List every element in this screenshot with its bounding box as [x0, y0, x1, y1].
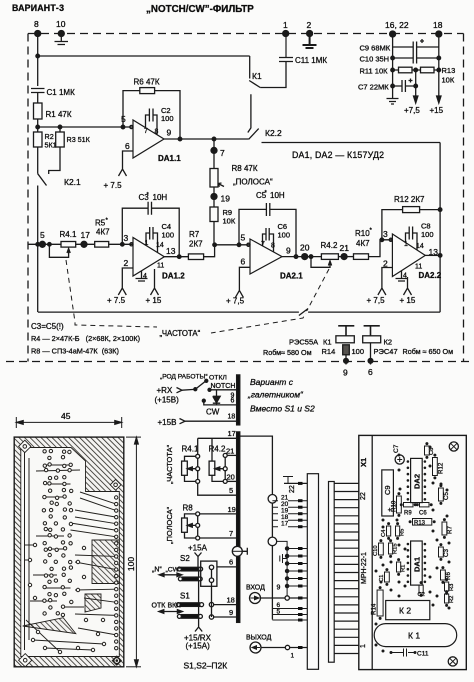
resistor R15 [389, 543, 393, 554]
svg-text:„NOTCH/CW”-ФИЛЬТР: „NOTCH/CW”-ФИЛЬТР [146, 4, 254, 15]
diode VD [213, 390, 220, 405]
svg-text:100: 100 [421, 230, 434, 239]
node wiper tap [48, 243, 52, 247]
output wire [282, 256, 321, 258]
mounting hole top [449, 442, 458, 451]
svg-text:+ 7.5: + 7.5 [107, 296, 126, 305]
feedback tap [121, 243, 125, 247]
svg-text:С6: С6 [419, 511, 427, 517]
svg-text:3: 3 [383, 229, 388, 239]
svg-text:14: 14 [156, 242, 164, 249]
svg-text:6: 6 [231, 397, 235, 404]
svg-text:R1 47К: R1 47К [46, 110, 72, 119]
svg-text:„ЧАСТОТА“: „ЧАСТОТА“ [165, 444, 174, 484]
+15 wire [404, 277, 412, 295]
svg-text:ВАРИАНТ-3: ВАРИАНТ-3 [12, 3, 64, 13]
svg-text:R8 47К: R8 47К [232, 164, 258, 173]
svg-text:„ЧАСТОТА“: „ЧАСТОТА“ [160, 329, 201, 338]
svg-text:DA1.1: DA1.1 [158, 154, 181, 163]
svg-text:20: 20 [227, 473, 235, 482]
solder pads [375, 446, 451, 653]
resistor R13 [421, 67, 435, 73]
svg-text:17: 17 [81, 230, 91, 240]
mounting pad BR [112, 656, 121, 665]
svg-text:С7 22МК: С7 22МК [358, 83, 389, 92]
etched white area [21, 448, 120, 657]
svg-text:МРН-22-1: МРН-22-1 [361, 552, 368, 584]
svg-text:R10: R10 [355, 229, 370, 238]
relay K1 coil [336, 336, 354, 343]
resistor R11 [393, 69, 439, 71]
svg-text:ВКЛ: ВКЛ [168, 603, 182, 610]
capacitor C5 [439, 488, 444, 501]
wire R1 to node [37, 119, 39, 132]
socket circle B [268, 537, 277, 546]
svg-text:С2: С2 [418, 592, 425, 598]
svg-text:„ПОЛОСА“: „ПОЛОСА“ [233, 178, 273, 187]
S1 to +15/RX [195, 618, 202, 631]
resistor R2 [445, 594, 449, 603]
svg-text:R9: R9 [404, 511, 412, 517]
op-amp DA2.2 [392, 234, 425, 277]
svg-text:7: 7 [220, 148, 225, 158]
S2 contact box [201, 561, 217, 586]
IC DA2 [411, 458, 423, 502]
mode switch lever [177, 388, 183, 393]
svg-text:+15В: +15В [158, 418, 177, 427]
potentiometer R8 [210, 169, 218, 188]
pin 16,22 dot [390, 31, 396, 37]
svg-text:R11 10К: R11 10К [360, 67, 389, 76]
PCB copper layout board [14, 437, 124, 667]
connector body МРН [307, 474, 318, 670]
svg-text:R3 51К: R3 51К [67, 135, 91, 144]
svg-text:9: 9 [167, 128, 172, 138]
svg-text:3: 3 [124, 233, 129, 243]
R4.1 wiper [49, 244, 70, 257]
bypass wire right [439, 143, 441, 313]
resistor R10 [397, 496, 402, 513]
traces [25, 465, 117, 652]
relay K2 coil [363, 336, 381, 343]
svg-text:С3: С3 [443, 549, 450, 557]
svg-text:5: 5 [277, 609, 281, 616]
node at input line [36, 125, 40, 129]
wire R9 down [213, 222, 215, 245]
svg-text:R4.1: R4.1 [182, 445, 199, 454]
pin6 wire to +7.5 [119, 151, 134, 176]
potentiometer R4.2 [321, 254, 338, 260]
svg-text:R14: R14 [322, 347, 336, 356]
pin 6 wire [217, 566, 237, 568]
dimension 45 [15, 417, 17, 428]
svg-text:R7: R7 [189, 230, 200, 239]
svg-text:ВХОД: ВХОД [246, 585, 265, 592]
feedback wire R12 [382, 210, 440, 240]
svg-text:8: 8 [155, 129, 159, 136]
node branch R8 [212, 137, 216, 141]
R4.2 wiper [311, 257, 332, 268]
ground symbol [387, 99, 399, 105]
pin 22 top [284, 482, 307, 484]
ground pin 4 [396, 271, 408, 282]
svg-text:Rобм≈ 580 Ом: Rобм≈ 580 Ом [263, 348, 312, 357]
pot R8 [196, 512, 200, 516]
svg-text:7: 7 [144, 128, 148, 135]
ground T top [283, 477, 293, 484]
capacitor C1 [31, 89, 45, 104]
node 21 [341, 254, 347, 260]
svg-text:22: 22 [360, 492, 367, 500]
svg-text:К1: К1 [252, 71, 262, 81]
svg-text:R5: R5 [400, 529, 406, 536]
ground at pin 2 [303, 34, 317, 49]
svg-text:2: 2 [124, 258, 129, 268]
svg-text:„N“: „N“ [152, 567, 162, 574]
svg-text:„галетником“: „галетником“ [247, 390, 304, 400]
socket circle A [268, 495, 277, 504]
svg-text:С1 1МК: С1 1МК [47, 88, 76, 97]
svg-text:R13: R13 [442, 66, 456, 75]
mounting hole bottom [448, 657, 457, 666]
kink in bottom wire [299, 311, 308, 313]
svg-text:DA1: DA1 [413, 557, 422, 572]
ground pin 4 [136, 271, 148, 281]
svg-text:100: 100 [162, 231, 175, 240]
svg-text:„CW“: „CW“ [166, 567, 183, 574]
pin 21 wire [227, 454, 236, 456]
capacitor C3 [148, 202, 151, 215]
+7.5 arrow [414, 96, 418, 103]
wire R10 to pin3 [369, 240, 393, 257]
S2 to 18/9 pins [211, 582, 213, 617]
bypass wire bottom [38, 311, 440, 313]
svg-text:+RX: +RX [157, 386, 173, 395]
svg-text:19: 19 [221, 194, 231, 204]
capacitor C3 [439, 547, 444, 557]
svg-text:„ПОЛОСА“: „ПОЛОСА“ [165, 506, 174, 544]
pin5 input circle [130, 125, 133, 128]
svg-text:DA2.2: DA2.2 [419, 271, 442, 280]
feedback wire C5 [239, 209, 296, 256]
svg-text:10Н: 10Н [270, 191, 285, 200]
pads [28, 449, 118, 653]
right supply rail [438, 34, 440, 96]
svg-text:11: 11 [157, 263, 164, 270]
svg-text:+ 7,5: + 7,5 [367, 296, 386, 305]
svg-text:+ 15: + 15 [146, 296, 162, 305]
svg-text:DA1.2: DA1.2 [162, 272, 185, 281]
svg-text:С11 1МК: С11 1МК [295, 56, 327, 65]
capacitor C9 [382, 470, 394, 516]
svg-text:R13: R13 [414, 521, 426, 527]
svg-text:9: 9 [286, 246, 291, 256]
svg-text:19: 19 [228, 505, 236, 514]
svg-text:Вместо S1 и S2: Вместо S1 и S2 [250, 404, 315, 414]
capacitor C10 [379, 543, 384, 555]
svg-text:9: 9 [277, 585, 281, 592]
wire R2 to switch [37, 147, 39, 174]
svg-text:18: 18 [227, 596, 235, 605]
capacitor C4 [146, 227, 158, 253]
variant box [240, 436, 273, 619]
svg-text:10К: 10К [223, 217, 236, 226]
copper island bottom wedge [23, 618, 76, 634]
svg-text:20: 20 [300, 243, 310, 253]
pin 2 dot [307, 31, 313, 37]
svg-text:К2: К2 [384, 338, 393, 347]
svg-text:С9 68МК: С9 68МК [360, 44, 391, 53]
svg-text:R6 47К: R6 47К [134, 78, 160, 87]
wire K1 to C11 [260, 62, 286, 88]
pin 20 wire [227, 480, 236, 482]
mid rail [415, 70, 417, 96]
svg-text:18: 18 [433, 20, 443, 30]
svg-text:(+15А): (+15А) [186, 642, 211, 651]
board dashed border top [28, 33, 464, 35]
svg-text:С5: С5 [443, 492, 450, 500]
wire left rail down [37, 186, 39, 313]
teeth to PCB [334, 483, 359, 653]
svg-text:R12: R12 [438, 462, 445, 474]
svg-text:X1: X1 [359, 458, 368, 467]
pins 6 5 [272, 609, 307, 621]
svg-text:+ 7.5: + 7.5 [104, 181, 123, 190]
svg-text:+15А: +15А [188, 544, 208, 553]
svg-text:22: 22 [289, 485, 296, 493]
svg-text:6: 6 [241, 257, 246, 267]
dimension 100 [126, 436, 141, 438]
resistor R9 [404, 503, 414, 507]
node junction at y56 [36, 54, 40, 58]
svg-text:R12 2К7: R12 2К7 [394, 195, 425, 204]
resistor R14 [343, 345, 350, 355]
svg-text:+7,5: +7,5 [404, 106, 420, 115]
copper island mid-right [92, 540, 119, 584]
node output tap [438, 254, 442, 258]
svg-text:R8 — СП3-4аМ-47К (63К): R8 — СП3-4аМ-47К (63К) [31, 347, 119, 356]
switch K1 contact [249, 56, 251, 79]
svg-text:6: 6 [125, 141, 130, 151]
resistor R9 [210, 207, 218, 222]
op-amp DA2.1 [250, 239, 282, 274]
relay K2 [386, 601, 430, 620]
svg-text:11: 11 [415, 264, 422, 271]
pin group upper [272, 501, 307, 527]
node feedback tap [121, 125, 125, 129]
svg-text:(+15В): (+15В) [155, 396, 180, 405]
svg-text:5: 5 [229, 486, 233, 495]
capacitor C10 [393, 53, 439, 64]
board dashed border bottom [6, 361, 470, 363]
svg-text:Rобм ≈ 650 Ом: Rобм ≈ 650 Ом [403, 347, 454, 356]
pot R4.1 [197, 438, 199, 454]
resistor R14 [377, 590, 383, 616]
svg-text:10Н: 10Н [153, 193, 168, 202]
svg-text:DA1, DA2 — К157УД2: DA1, DA2 — К157УД2 [292, 150, 384, 160]
svg-text:14: 14 [416, 243, 424, 250]
capacitor C11 [279, 34, 293, 62]
svg-text:R7: R7 [447, 526, 454, 534]
svg-text:R5: R5 [95, 219, 106, 228]
svg-text:1: 1 [145, 240, 149, 247]
jack symbol on bar [232, 546, 242, 556]
op-amp DA1.1 [133, 120, 164, 158]
capacitor C7 [393, 80, 416, 92]
trace rails [25, 452, 30, 650]
node R12 tap [438, 208, 442, 212]
svg-text:С10: С10 [373, 545, 379, 556]
svg-text:17: 17 [228, 429, 236, 438]
wire y56 to K1 [38, 55, 250, 57]
svg-text:1: 1 [404, 241, 408, 248]
pin 1 dot [283, 31, 289, 37]
wire to DA2.1 [215, 244, 250, 246]
svg-text:18: 18 [228, 414, 236, 421]
capacitor C8 [406, 227, 418, 251]
svg-text:R3: R3 [449, 584, 455, 591]
node 17 [81, 241, 87, 247]
svg-text:6: 6 [368, 367, 373, 377]
node rail tap [36, 243, 40, 247]
node R11/R13 [414, 68, 418, 72]
svg-text:5: 5 [241, 233, 246, 243]
capacitor C6 [420, 503, 430, 507]
svg-text:К1: К1 [323, 338, 332, 347]
capacitor C5 [266, 203, 269, 216]
svg-text:R4.2: R4.2 [209, 445, 226, 454]
node 19 [213, 187, 215, 207]
resistor R12 [433, 458, 438, 476]
relay K2 contact [364, 326, 380, 336]
pot R4.2 [209, 461, 215, 475]
output wire [164, 138, 249, 140]
svg-text:R10: R10 [391, 500, 398, 512]
svg-text:100: 100 [126, 557, 136, 571]
dashed leader from R4.1 [66, 260, 329, 333]
svg-text:16, 22: 16, 22 [385, 20, 409, 30]
svg-text:4: 4 [143, 273, 147, 280]
pin 8 dot [35, 31, 41, 37]
capacitor C11 [391, 649, 414, 657]
svg-text:6: 6 [229, 558, 233, 567]
+15 arrow [437, 96, 441, 103]
pin 5 wire [198, 483, 237, 495]
svg-text:45: 45 [61, 411, 71, 421]
svg-text:С10 35Н: С10 35Н [360, 55, 390, 64]
switch K2.2 blade [249, 129, 259, 140]
svg-text:DA2.1: DA2.1 [280, 272, 303, 281]
board dashed border left [27, 34, 29, 362]
bus with taps [277, 541, 287, 595]
resistor R1 [397, 562, 401, 572]
svg-text:100: 100 [278, 231, 291, 240]
feedback wire [123, 91, 180, 139]
NOTCH contact wire [208, 388, 211, 391]
svg-text:К 1: К 1 [408, 631, 420, 641]
svg-text:ОТК: ОТК [152, 603, 167, 610]
connector bar lower [237, 432, 240, 623]
resistor R10 [354, 254, 369, 260]
svg-text:NOTCH: NOTCH [211, 383, 236, 390]
cap to ground on bus [280, 554, 287, 563]
wire K2 to pin 6 [370, 343, 372, 365]
wire R7 to junction [204, 245, 215, 257]
svg-text:21: 21 [340, 243, 350, 253]
board dashed border right [463, 34, 465, 362]
svg-text:1: 1 [291, 653, 295, 660]
switch K1 blade [249, 81, 260, 88]
pin 5 terminal [39, 241, 45, 247]
wire pin8 down [37, 34, 39, 87]
svg-text:7: 7 [229, 529, 233, 538]
resistor R6 [441, 570, 446, 580]
svg-text:21: 21 [226, 447, 234, 456]
resistor R7 [442, 522, 447, 535]
svg-text:ОТКЛ: ОТКЛ [209, 375, 227, 382]
bypass wire top [262, 142, 441, 144]
resistor R13 [413, 519, 432, 526]
wire R3 to switch contact [49, 147, 60, 174]
svg-text:17: 17 [281, 521, 289, 528]
svg-text:8: 8 [271, 243, 275, 250]
CW contact wire [202, 399, 205, 402]
capacitor C9 [393, 42, 439, 53]
svg-text:С9: С9 [383, 485, 392, 495]
svg-text:R14: R14 [371, 603, 378, 615]
svg-text:10К: 10К [442, 76, 455, 85]
input wire y244.3 [28, 243, 61, 245]
feedback wire C3 [122, 208, 179, 257]
output wire [425, 254, 440, 256]
svg-text:+ 7,5: + 7,5 [226, 297, 245, 306]
resistor R3 [56, 132, 64, 147]
svg-text:ВЫХОД: ВЫХОД [246, 635, 272, 642]
svg-text:100: 100 [352, 347, 365, 356]
svg-text:S1,S2–П2К: S1,S2–П2К [184, 661, 228, 671]
relay K1 [374, 624, 457, 647]
pin 7 wire [200, 537, 237, 539]
IC DA1 [411, 541, 423, 585]
svg-text:R8: R8 [183, 504, 194, 513]
svg-text:R1: R1 [401, 565, 407, 572]
capacitor C6 [263, 228, 274, 252]
svg-text:S1: S1 [180, 592, 190, 601]
left supply rail [392, 34, 394, 99]
svg-text:+15: +15 [430, 106, 444, 115]
resistor R7 [188, 254, 203, 260]
svg-text:100: 100 [161, 114, 174, 123]
wire K2.2 pivot [248, 94, 251, 132]
svg-text:„РОД РАБОТЫ“: „РОД РАБОТЫ“ [160, 374, 208, 381]
resistor R2 [34, 132, 43, 147]
svg-text:9: 9 [343, 368, 348, 378]
resistor R1 [34, 103, 43, 119]
svg-text:К2.1: К2.1 [64, 177, 81, 187]
svg-text:R4.1: R4.1 [60, 230, 77, 239]
svg-text:К2.2: К2.2 [265, 128, 282, 138]
potentiometer R4.1 [61, 242, 76, 248]
pin6 wire [235, 267, 250, 297]
resistor R5 [95, 242, 109, 248]
svg-text:С7: С7 [393, 444, 400, 453]
connector strip line [371, 435, 373, 669]
output node [164, 256, 188, 258]
feedback tap [237, 243, 241, 247]
capacitor C8 [425, 446, 430, 455]
assembly board [359, 435, 467, 669]
junction R9/R7 [213, 243, 217, 247]
